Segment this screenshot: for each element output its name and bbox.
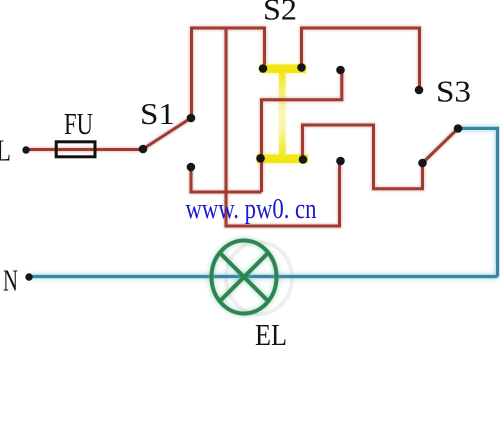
- wire N terminal across to right edge (cyan): [29, 275, 498, 278]
- wire S2 bottom-middle contact up, right, down, right, up to S3 bottom throw: [303, 125, 423, 189]
- wire S3 pivot to right edge and down to N line (cyan): [458, 128, 498, 276]
- switch S1 top throw node: [187, 114, 196, 123]
- lamp glow: [212, 241, 277, 314]
- wire S1 top throw up, right, down to S2 top-left contact: [192, 28, 265, 118]
- svg-text:L: L: [0, 133, 11, 168]
- cyan wire glow: [29, 128, 498, 276]
- switch S3 top throw node: [415, 86, 424, 95]
- wire S1 bottom throw down, right to below S2 bottom-left contact: [191, 167, 262, 192]
- S2 top-left contact node: [259, 64, 268, 73]
- S2 bottom-left contact node: [256, 154, 265, 163]
- svg-text:S2: S2: [263, 0, 297, 27]
- ghost watermark circle: [226, 242, 292, 314]
- switch S2 bridge: vertical yellow link: [279, 72, 286, 156]
- fuse FU: [56, 142, 95, 157]
- switch S3 blade: [423, 129, 459, 164]
- S2 bridge glow: [257, 65, 309, 164]
- wire branch: long vertical x=226 down, right, up to S2 bottom-right outer contact: [226, 28, 340, 226]
- switch S3 bottom throw node: [418, 159, 427, 168]
- svg-text:S1: S1: [140, 96, 175, 131]
- S2 bottom-middle contact node: [299, 155, 308, 164]
- switch S1 blade: [143, 118, 191, 149]
- switch S2 bridge: top yellow bar: [260, 65, 306, 74]
- svg-text:N: N: [3, 263, 18, 298]
- S2 bottom-right outer contact node: [336, 157, 345, 166]
- S2 top-middle contact node: [297, 63, 306, 72]
- svg-text:S3: S3: [436, 74, 471, 109]
- wire L to fuse to S1 pivot: [26, 148, 143, 151]
- wire S2 top-middle contact up, right, down to S3 top contact: [302, 28, 420, 90]
- switch S1 bottom throw node: [187, 163, 196, 172]
- wire vertical through S2 bottom-left contact up to y=99: [262, 70, 342, 192]
- S2 top-right outer contact node: [336, 66, 345, 75]
- switch S3 pivot node: [454, 124, 463, 133]
- svg-text:www. pw0. cn: www. pw0. cn: [186, 194, 317, 225]
- switch S1 pivot node: [139, 145, 148, 154]
- red wire glow: [26, 28, 458, 226]
- terminal N node: [25, 273, 32, 280]
- svg-text:FU: FU: [64, 106, 93, 141]
- svg-text:EL: EL: [255, 317, 287, 352]
- switch S2 bridge: bottom yellow bar: [257, 155, 309, 164]
- terminal L node: [22, 146, 29, 153]
